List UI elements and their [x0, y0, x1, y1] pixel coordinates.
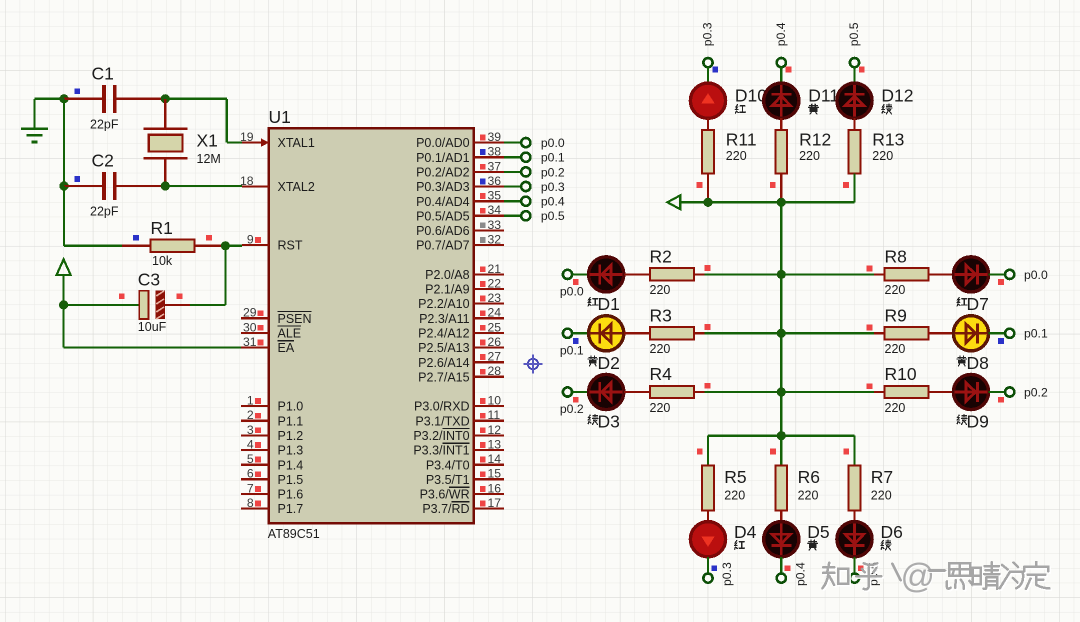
wire bar to R5 [707, 436, 709, 466]
junction node F (C3 left) [59, 300, 68, 309]
terminal p0.4 (bottom) [777, 574, 786, 583]
pin 31 EA [241, 335, 295, 355]
C1 label [92, 64, 114, 84]
terminal state square [573, 279, 579, 285]
D2 colour label 黄 [588, 356, 598, 366]
wire LED D11 to R12 [780, 118, 782, 130]
svg-text:5: 5 [247, 452, 254, 466]
terminal state square [573, 397, 579, 403]
svg-text:26: 26 [488, 335, 502, 349]
LED D12 [837, 83, 872, 118]
net label p0.3 [541, 180, 565, 194]
top bus wire [680, 201, 854, 203]
terminal p0.5 (top) [850, 58, 859, 67]
R9 label [885, 305, 907, 325]
net label p0.2 [541, 165, 565, 179]
wire R5 to LED D4 [707, 511, 709, 523]
R8 value 220 [885, 283, 906, 297]
svg-text:R2: R2 [650, 246, 672, 266]
svg-text:D12: D12 [881, 86, 913, 106]
net label p0.4 rotated [774, 22, 788, 46]
X1 value 12M [197, 152, 221, 166]
svg-text:D7: D7 [967, 294, 989, 314]
R4 value 220 [650, 401, 671, 415]
svg-text:6: 6 [247, 467, 254, 481]
terminal state square [859, 67, 865, 73]
ground [21, 99, 48, 142]
svg-text:R3: R3 [650, 305, 672, 325]
wire LED D3 to R4 [624, 391, 650, 393]
R8 label [885, 246, 907, 266]
pin 16 P3.6/WR [420, 481, 505, 501]
C3 state squares [119, 293, 183, 299]
wire LED D8 to terminal [989, 332, 1006, 334]
resistor R3 [650, 327, 694, 339]
svg-text:13: 13 [488, 437, 502, 451]
R1 state squares [133, 235, 212, 241]
svg-text:D3: D3 [598, 412, 620, 432]
junction bus/trunk [777, 198, 786, 207]
svg-text:220: 220 [650, 401, 671, 415]
crystal X1 [143, 99, 187, 186]
wire pin 34 to terminal [504, 215, 521, 217]
D11 colour label 黄 [809, 104, 819, 114]
svg-text:C2: C2 [92, 151, 114, 171]
wire terminal to LED D2 [572, 332, 588, 334]
svg-text:@: @ [901, 558, 936, 596]
svg-text:P0.5/AD5: P0.5/AD5 [416, 209, 470, 223]
svg-text:p0.3: p0.3 [541, 180, 565, 194]
terminal p0.1 (left row) [563, 329, 572, 338]
R11 state square [697, 182, 703, 188]
pin 14 P3.4/T0 [426, 452, 504, 472]
R2 label [650, 246, 672, 266]
D4 label [734, 522, 757, 542]
pin 4 P1.3 [241, 437, 303, 457]
wire R3 to trunk [694, 332, 781, 334]
pin 32 P0.7/AD7 [416, 233, 504, 253]
wire R2 to trunk [694, 273, 781, 275]
svg-text:R10: R10 [885, 364, 917, 384]
wire trunk to R10 [781, 391, 884, 393]
D1 label [598, 294, 620, 314]
svg-text:24: 24 [488, 306, 502, 320]
terminal p0.0 (left row) [563, 270, 572, 279]
svg-text:AT89C51: AT89C51 [268, 527, 320, 541]
pin 19 XTAL1 [240, 130, 315, 150]
svg-text:P1.6: P1.6 [278, 488, 304, 502]
R9 value 220 [885, 342, 906, 356]
svg-text:220: 220 [650, 342, 671, 356]
C3 label [138, 269, 160, 289]
LED D1 [589, 257, 624, 292]
svg-text:32: 32 [488, 233, 502, 247]
net label p0.4 rotated [794, 562, 808, 586]
pin 5 P1.4 [241, 452, 303, 472]
svg-text:P0.7/AD7: P0.7/AD7 [416, 239, 470, 253]
pin 26 P2.5/A13 [418, 335, 504, 355]
svg-text:19: 19 [240, 130, 254, 144]
svg-text:9: 9 [247, 233, 254, 247]
svg-text:220: 220 [799, 149, 820, 163]
svg-text:ALE: ALE [278, 327, 302, 341]
pin 38 P0.1/AD1 [416, 145, 504, 165]
pin 30 ALE [241, 320, 301, 340]
C2 value 22pF [90, 204, 119, 218]
svg-text:p0.4: p0.4 [794, 562, 808, 586]
pin 24 P2.3/A11 [419, 306, 504, 326]
R10 state square [867, 383, 873, 389]
terminal p0.2 (right row) [1005, 387, 1014, 396]
svg-text:P1.5: P1.5 [278, 473, 304, 487]
pin 11 P3.1/TXD [415, 408, 504, 428]
terminal p0.5 (bottom) [850, 574, 859, 583]
wire R13 to bus [853, 173, 855, 202]
pin 39 P0.0/AD0 [416, 130, 504, 150]
svg-text:U1: U1 [269, 107, 291, 127]
wire node C down to R1 row [64, 186, 122, 246]
R13 value 220 [872, 149, 893, 163]
resistor R4 [650, 386, 694, 398]
svg-text:P3.1/TXD: P3.1/TXD [415, 414, 469, 428]
D10 colour label 红 [736, 105, 746, 114]
wire node D to XTAL2 pin [165, 185, 242, 187]
svg-text:p0.0: p0.0 [1024, 268, 1048, 282]
junction bar/trunk [777, 431, 786, 440]
svg-text:1: 1 [247, 394, 254, 408]
R4 label [650, 364, 673, 384]
LED D9 [953, 374, 988, 409]
svg-text:220: 220 [650, 283, 671, 297]
LED D10 [690, 83, 725, 118]
pin 18 XTAL2 [240, 174, 315, 194]
junction trunk row 2 [777, 387, 786, 396]
resistor R8 [884, 268, 928, 280]
resistor R12 [776, 130, 788, 174]
wire LED D1 to R2 [624, 273, 650, 275]
wire terminal to LED D1 [572, 273, 588, 275]
capacitor C3 (polarized) [64, 291, 190, 319]
D10 label [735, 86, 767, 106]
terminal state square [858, 565, 864, 571]
svg-text:34: 34 [488, 203, 502, 217]
net label p0.5 rotated [867, 562, 881, 586]
wire node E down to C3 right [190, 246, 225, 305]
R7 label [871, 467, 893, 487]
pin 15 P3.5/T1 [426, 467, 504, 487]
terminal state square [573, 338, 579, 344]
svg-text:22: 22 [488, 276, 502, 290]
R11 value 220 [726, 149, 747, 163]
terminal state square [998, 397, 1004, 403]
C2 label [92, 151, 114, 171]
R1 value 10k [152, 254, 173, 268]
svg-text:35: 35 [488, 189, 502, 203]
svg-text:4: 4 [247, 437, 254, 451]
terminal net label p0.0 [560, 284, 584, 298]
svg-text:17: 17 [488, 496, 502, 510]
svg-text:R4: R4 [650, 364, 673, 384]
pin 1 P1.0 [241, 394, 303, 414]
svg-text:29: 29 [243, 306, 257, 320]
resistor R7 [849, 466, 861, 511]
svg-text:P0.0/AD0: P0.0/AD0 [416, 136, 470, 150]
svg-text:P3.5/T1: P3.5/T1 [426, 473, 470, 487]
capacitor C1 [64, 85, 165, 113]
terminal net label p0.2 [560, 402, 584, 416]
R13 state square [843, 182, 849, 188]
svg-text:31: 31 [243, 335, 257, 349]
wire bar to R7 [853, 436, 855, 466]
resistor R2 [650, 268, 694, 280]
D5 label [807, 522, 829, 542]
R11 label [726, 129, 757, 149]
svg-text:R12: R12 [799, 129, 831, 149]
terminal p0.5 [521, 211, 530, 220]
junction node A (C1 left) [59, 94, 68, 103]
D12 label [881, 86, 913, 106]
wire node F down to EA pin [64, 305, 242, 348]
wire LED D12 to R13 [853, 118, 855, 130]
svg-text:p0.2: p0.2 [1024, 385, 1048, 399]
svg-text:27: 27 [488, 350, 502, 364]
R3 label [650, 305, 672, 325]
net label p0.3 rotated [701, 22, 715, 46]
svg-text:D1: D1 [598, 294, 620, 314]
junction bus/R11 [703, 198, 712, 207]
svg-text:p0.5: p0.5 [847, 22, 861, 46]
C1 value 22pF [90, 117, 119, 131]
svg-text:EA: EA [278, 341, 295, 355]
wire LED D7 to terminal [989, 273, 1006, 275]
cursor crosshair [524, 355, 543, 374]
svg-text:220: 220 [885, 283, 906, 297]
terminal p0.3 (top) [703, 58, 712, 67]
wire LED D2 to R3 [624, 332, 650, 334]
resistor R11 [702, 130, 714, 174]
pin 34 P0.5/AD5 [416, 203, 504, 223]
R3 value 220 [650, 342, 671, 356]
svg-text:10uF: 10uF [138, 320, 167, 334]
svg-text:p0.1: p0.1 [541, 151, 565, 165]
svg-text:28: 28 [488, 364, 502, 378]
svg-text:p0.0: p0.0 [560, 284, 584, 298]
svg-text:P2.3/A11: P2.3/A11 [419, 312, 470, 326]
wire terminal to LED D10 [707, 67, 709, 83]
net label p0.3 rotated [720, 562, 734, 586]
wire LED D10 to R11 [707, 118, 709, 130]
svg-text:11: 11 [488, 408, 501, 422]
pin 17 P3.7/RD [422, 496, 504, 516]
junction node D (X1 bottom) [161, 181, 170, 190]
D6 colour label 绿 [881, 540, 891, 550]
svg-text:10k: 10k [152, 254, 173, 268]
C1 state square [74, 88, 80, 94]
pin 25 P2.4/A12 [418, 320, 504, 340]
pin 27 P2.6/A14 [418, 350, 504, 370]
LED D3 [589, 374, 624, 409]
wire R7 to LED D6 [853, 511, 855, 523]
R9 state square [867, 325, 873, 331]
wire R11 to bus [707, 173, 709, 202]
svg-text:p0.2: p0.2 [560, 402, 584, 416]
bus arrow (left pointer) [667, 195, 680, 209]
wire terminal to LED D12 [853, 67, 855, 83]
R4 state square [705, 383, 711, 389]
wire pin 38 to terminal [504, 156, 521, 158]
capacitor C2 [64, 172, 165, 200]
LED D2 [589, 316, 624, 351]
svg-text:P0.6/AD6: P0.6/AD6 [416, 224, 470, 238]
pin 21 P2.0/A8 [425, 262, 504, 282]
svg-text:P1.3: P1.3 [278, 444, 304, 458]
wire LED D6 to terminal [853, 557, 855, 573]
terminal net label p0.1 [560, 343, 584, 357]
svg-text:P0.4/AD4: P0.4/AD4 [416, 195, 470, 209]
svg-text:38: 38 [488, 145, 502, 159]
pin 23 P2.2/A10 [418, 291, 504, 311]
svg-text:P2.0/A8: P2.0/A8 [425, 268, 470, 282]
svg-text:22pF: 22pF [90, 117, 119, 131]
wire node B to XTAL1 corner [165, 99, 242, 143]
R2 state square [705, 265, 711, 271]
R13 label [872, 129, 904, 149]
pin 7 P1.6 [241, 481, 303, 501]
X1 label [197, 131, 218, 151]
D7 label [967, 294, 989, 314]
D5 colour label 黄 [808, 540, 818, 550]
D3 label [598, 412, 620, 432]
svg-text:37: 37 [488, 159, 502, 173]
terminal net label p0.0 [1024, 268, 1048, 282]
svg-text:220: 220 [885, 401, 906, 415]
wire pin 39 to terminal [504, 142, 521, 144]
svg-text:P2.4/A12: P2.4/A12 [418, 327, 469, 341]
D2 label [598, 353, 620, 373]
pin 10 P3.0/RXD [414, 394, 504, 414]
junction node B (C1/X1 top) [161, 94, 170, 103]
terminal p0.1 [521, 153, 530, 162]
svg-text:22pF: 22pF [90, 204, 119, 218]
terminal net label p0.2 [1024, 385, 1048, 399]
svg-text:P3.2/INT0: P3.2/INT0 [413, 429, 469, 443]
terminal p0.0 [521, 138, 530, 147]
wire ground to node A [34, 98, 64, 100]
svg-text:36: 36 [488, 174, 502, 188]
terminal state square [785, 565, 791, 571]
junction node E (RST) [221, 241, 230, 250]
svg-text:220: 220 [871, 488, 892, 502]
svg-text:P2.1/A9: P2.1/A9 [425, 283, 470, 297]
wire R9 to LED D8 [928, 332, 953, 334]
net label p0.1 [541, 151, 565, 165]
wire R10 to LED D9 [928, 391, 953, 393]
D12 colour label 绿 [882, 104, 892, 114]
R8 state square [867, 266, 873, 272]
svg-text:X1: X1 [197, 131, 218, 151]
wire bar to R6 [780, 436, 782, 466]
D4 colour label 红 [735, 541, 745, 550]
terminal state square [711, 565, 717, 571]
svg-text:p0.3: p0.3 [701, 22, 715, 46]
bottom bar wire [708, 435, 855, 437]
LED D4 [690, 522, 725, 557]
svg-text:P1.1: P1.1 [278, 414, 304, 428]
D9 colour label 绿 [957, 414, 967, 424]
watermark 知乎@-恩晴为定 [822, 558, 1050, 597]
svg-text:25: 25 [488, 320, 502, 334]
svg-text:P1.0: P1.0 [278, 400, 304, 414]
svg-text:XTAL2: XTAL2 [278, 180, 315, 194]
svg-text:R6: R6 [798, 467, 820, 487]
svg-text:D11: D11 [808, 86, 839, 106]
svg-text:220: 220 [726, 149, 747, 163]
U1 reference label [269, 107, 291, 127]
wire pin 36 to terminal [504, 185, 521, 187]
R2 value 220 [650, 283, 671, 297]
trunk wire (vertical) [780, 202, 782, 435]
D8 label [967, 353, 989, 373]
svg-text:P1.7: P1.7 [278, 502, 304, 516]
svg-text:D6: D6 [881, 522, 903, 542]
terminal net label p0.1 [1024, 327, 1048, 341]
svg-text:P0.1/AD1: P0.1/AD1 [416, 151, 470, 165]
svg-text:23: 23 [488, 291, 502, 305]
wire LED D9 to terminal [989, 391, 1006, 393]
pin 28 P2.7/A15 [418, 364, 504, 384]
pin 13 P3.3/INT1 [413, 437, 504, 457]
svg-text:220: 220 [724, 488, 745, 502]
terminal p0.2 (left row) [563, 387, 572, 396]
LED D5 [764, 522, 799, 557]
svg-text:220: 220 [872, 149, 893, 163]
junction trunk row 1 [777, 329, 786, 338]
wire terminal to LED D11 [780, 67, 782, 83]
svg-text:18: 18 [240, 174, 254, 188]
D11 label [808, 86, 839, 106]
svg-text:12: 12 [488, 423, 502, 437]
resistor R9 [884, 327, 928, 339]
resistor R13 [849, 130, 861, 174]
svg-text:39: 39 [488, 130, 502, 144]
svg-text:P3.6/WR: P3.6/WR [420, 488, 470, 502]
svg-text:P3.0/RXD: P3.0/RXD [414, 400, 470, 414]
pin 3 P1.2 [241, 423, 303, 443]
svg-text:3: 3 [247, 423, 254, 437]
svg-text:10: 10 [488, 394, 502, 408]
microcontroller U1 body [269, 128, 474, 523]
svg-text:R13: R13 [872, 129, 904, 149]
svg-text:21: 21 [488, 262, 502, 276]
U1 value AT89C51 [268, 527, 320, 541]
svg-text:D4: D4 [734, 522, 757, 542]
svg-text:33: 33 [488, 218, 502, 232]
svg-text:P0.3/AD3: P0.3/AD3 [416, 180, 470, 194]
svg-text:R9: R9 [885, 305, 907, 325]
net label p0.5 rotated [847, 22, 861, 46]
terminal p0.1 (right row) [1005, 329, 1014, 338]
svg-text:C1: C1 [92, 64, 114, 84]
R3 state square [705, 324, 711, 330]
D1 colour label 红 [588, 297, 598, 306]
R5 state square [697, 449, 703, 455]
wire node A down to C2 row [63, 99, 65, 186]
svg-text:R1: R1 [151, 218, 173, 238]
R6 value 220 [798, 488, 819, 502]
svg-text:220: 220 [885, 342, 906, 356]
svg-text:P3.4/T0: P3.4/T0 [426, 458, 470, 472]
terminal p0.4 (top) [777, 58, 786, 67]
